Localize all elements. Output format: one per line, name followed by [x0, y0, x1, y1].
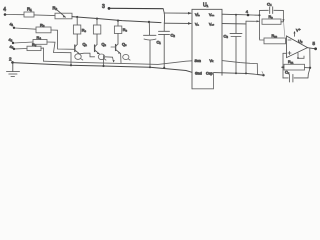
wire (U1 Vo pin)	[222, 23, 246, 25]
svg-text:Vₐ: Vₐ	[195, 23, 199, 27]
svg-text:2: 2	[9, 57, 12, 62]
svg-text:R₄: R₄	[37, 35, 42, 40]
wire (sense rail to U1)	[44, 61, 193, 65]
wire (left leg of RC bridge)	[259, 10, 261, 38]
resistor R1	[24, 7, 34, 18]
svg-text:V⁺: V⁺	[296, 29, 301, 33]
svg-text:Sen: Sen	[195, 59, 201, 63]
wire to U1 Vc	[164, 22, 191, 24]
wire (right leg of RC bridge)	[282, 10, 284, 21]
wire stub	[262, 72, 263, 75]
wire (main rail sagging right)	[72, 17, 161, 23]
svg-text:Q₂: Q₂	[102, 43, 107, 47]
transistor Q2	[95, 34, 107, 60]
wire (Q1 emitter link)	[80, 53, 95, 57]
transistor Q1	[75, 34, 88, 60]
svg-text:R₆: R₆	[82, 29, 87, 33]
junction arrow	[113, 60, 115, 62]
node 3 (input terminal)	[102, 4, 110, 10]
junction dot	[102, 65, 104, 67]
svg-text:Gnd: Gnd	[195, 72, 202, 76]
U2 bottom pin	[297, 53, 304, 59]
wire	[15, 28, 36, 29]
junction dot	[76, 16, 78, 18]
wire (Q2 emitter drop)	[103, 56, 105, 67]
junction dot	[149, 66, 151, 68]
wire (ground rail to U1 GND)	[13, 63, 193, 73]
node 4-1 (second input)	[10, 22, 16, 29]
wire (drop to R6)	[76, 17, 78, 25]
regulator U1	[192, 3, 222, 89]
wire (drop to R8)	[117, 21, 119, 26]
svg-text:R₁: R₁	[27, 7, 32, 12]
resistor R11	[282, 60, 311, 70]
resistor R5	[27, 43, 41, 51]
svg-text:4₃: 4₃	[10, 44, 14, 49]
svg-text:4₁: 4₁	[10, 22, 14, 27]
svg-text:Vіₙ: Vіₙ	[195, 13, 200, 17]
wire (faint continuation to op-amp)	[284, 22, 285, 36]
junction dot	[70, 64, 72, 66]
junction dot	[235, 14, 237, 16]
wire (output down leg)	[309, 48, 311, 68]
wire (to sense rail)	[41, 48, 44, 61]
wire (Q2 to Q3 link)	[105, 57, 114, 62]
junction arrow	[282, 19, 284, 22]
wire (drop at x246)	[245, 21, 247, 73]
potentiometer R2	[53, 6, 73, 19]
capacitor C5	[283, 68, 310, 82]
transistor Q3	[111, 34, 130, 61]
wire (drop to R7)	[96, 19, 98, 25]
wire (Q3 emitter drop)	[120, 54, 122, 63]
svg-text:C₅: C₅	[285, 71, 290, 75]
wire (upper rail)	[110, 7, 163, 9]
capacitor C3	[224, 15, 243, 73]
resistor R6	[73, 25, 86, 34]
wire (junction bend at x163)	[163, 9, 164, 23]
resistor R9	[262, 15, 283, 24]
junction dot	[235, 72, 237, 74]
junction dot	[163, 67, 165, 69]
junction dot	[245, 72, 247, 74]
svg-text:R₅: R₅	[32, 43, 37, 47]
capacitor C4	[260, 2, 284, 14]
resistor R3	[36, 23, 51, 33]
junction dot	[96, 18, 98, 20]
wire (drop to ground rail)	[70, 53, 72, 65]
svg-text:Vₒₛ: Vₒₛ	[209, 23, 215, 27]
junction dot	[117, 20, 119, 22]
pin arrow U1 Vin	[188, 12, 192, 15]
wire	[34, 14, 55, 17]
svg-text:Cap: Cap	[206, 72, 213, 76]
svg-text:Q₃: Q₃	[122, 43, 127, 47]
svg-text:3: 3	[102, 4, 105, 10]
svg-text:4: 4	[3, 7, 6, 13]
svg-text:C₃: C₃	[224, 34, 229, 39]
wire (U1 sense-out sag)	[222, 61, 263, 76]
junction dot	[148, 21, 150, 23]
resistor R4	[33, 35, 47, 45]
wire (into R10)	[260, 38, 265, 40]
svg-text:C₄: C₄	[267, 2, 272, 7]
wire to U1 Vin	[164, 12, 191, 14]
U1 bottom tab box	[192, 73, 214, 88]
wire (feedback left leg)	[282, 53, 284, 78]
node 4 (input terminal, top-left)	[3, 7, 6, 16]
svg-text:U₂: U₂	[298, 39, 303, 44]
wire	[6, 14, 24, 16]
svg-text:4₂: 4₂	[9, 37, 13, 42]
node 5 (output terminal)	[313, 41, 318, 50]
svg-text:R₂: R₂	[53, 6, 58, 11]
wire	[47, 42, 71, 53]
wire	[283, 52, 287, 54]
junction dot	[282, 66, 284, 68]
svg-text:R₉: R₉	[269, 15, 274, 19]
junction dot	[309, 67, 311, 69]
node 4-3 (fourth input)	[10, 44, 16, 50]
svg-text:Vₒₙ: Vₒₙ	[209, 13, 215, 17]
resistor R10	[264, 34, 286, 44]
resistor R7	[93, 25, 100, 34]
node 2 (ground terminal)	[9, 57, 14, 64]
junction dot	[259, 14, 261, 16]
op-amp U2	[287, 36, 308, 58]
svg-text:R₈: R₈	[123, 28, 128, 32]
resistor R8	[114, 26, 127, 34]
svg-text:C₂: C₂	[171, 33, 176, 38]
wire (U1 Cap pin rail)	[214, 73, 264, 75]
svg-text:Vₖ: Vₖ	[210, 59, 214, 63]
node 4 (output of regulator)	[246, 9, 250, 16]
svg-text:R₁₀: R₁₀	[272, 34, 278, 38]
capacitor C1	[144, 22, 162, 67]
junction dot	[262, 74, 264, 76]
wire	[15, 48, 27, 50]
V+ supply pin	[293, 29, 300, 37]
wire (op-amp output)	[308, 48, 316, 49]
svg-text:5: 5	[313, 41, 316, 46]
wire	[51, 30, 75, 49]
svg-text:U₁: U₁	[203, 3, 209, 9]
ground	[7, 63, 20, 77]
svg-text:Q₁: Q₁	[83, 43, 88, 47]
svg-text:R₃: R₃	[40, 23, 45, 28]
wire (U1 Vout rail)	[222, 14, 260, 15]
wire (to R9 input)	[246, 20, 260, 22]
junction arrow	[257, 20, 260, 22]
svg-text:R₁₁: R₁₁	[288, 60, 294, 64]
capacitor C2	[159, 23, 176, 68]
svg-text:4: 4	[246, 9, 249, 14]
svg-text:C₁: C₁	[157, 40, 162, 45]
pin arrow U1 Vc	[188, 22, 192, 25]
wire	[14, 42, 33, 43]
node 4-2 (third input)	[9, 37, 15, 44]
